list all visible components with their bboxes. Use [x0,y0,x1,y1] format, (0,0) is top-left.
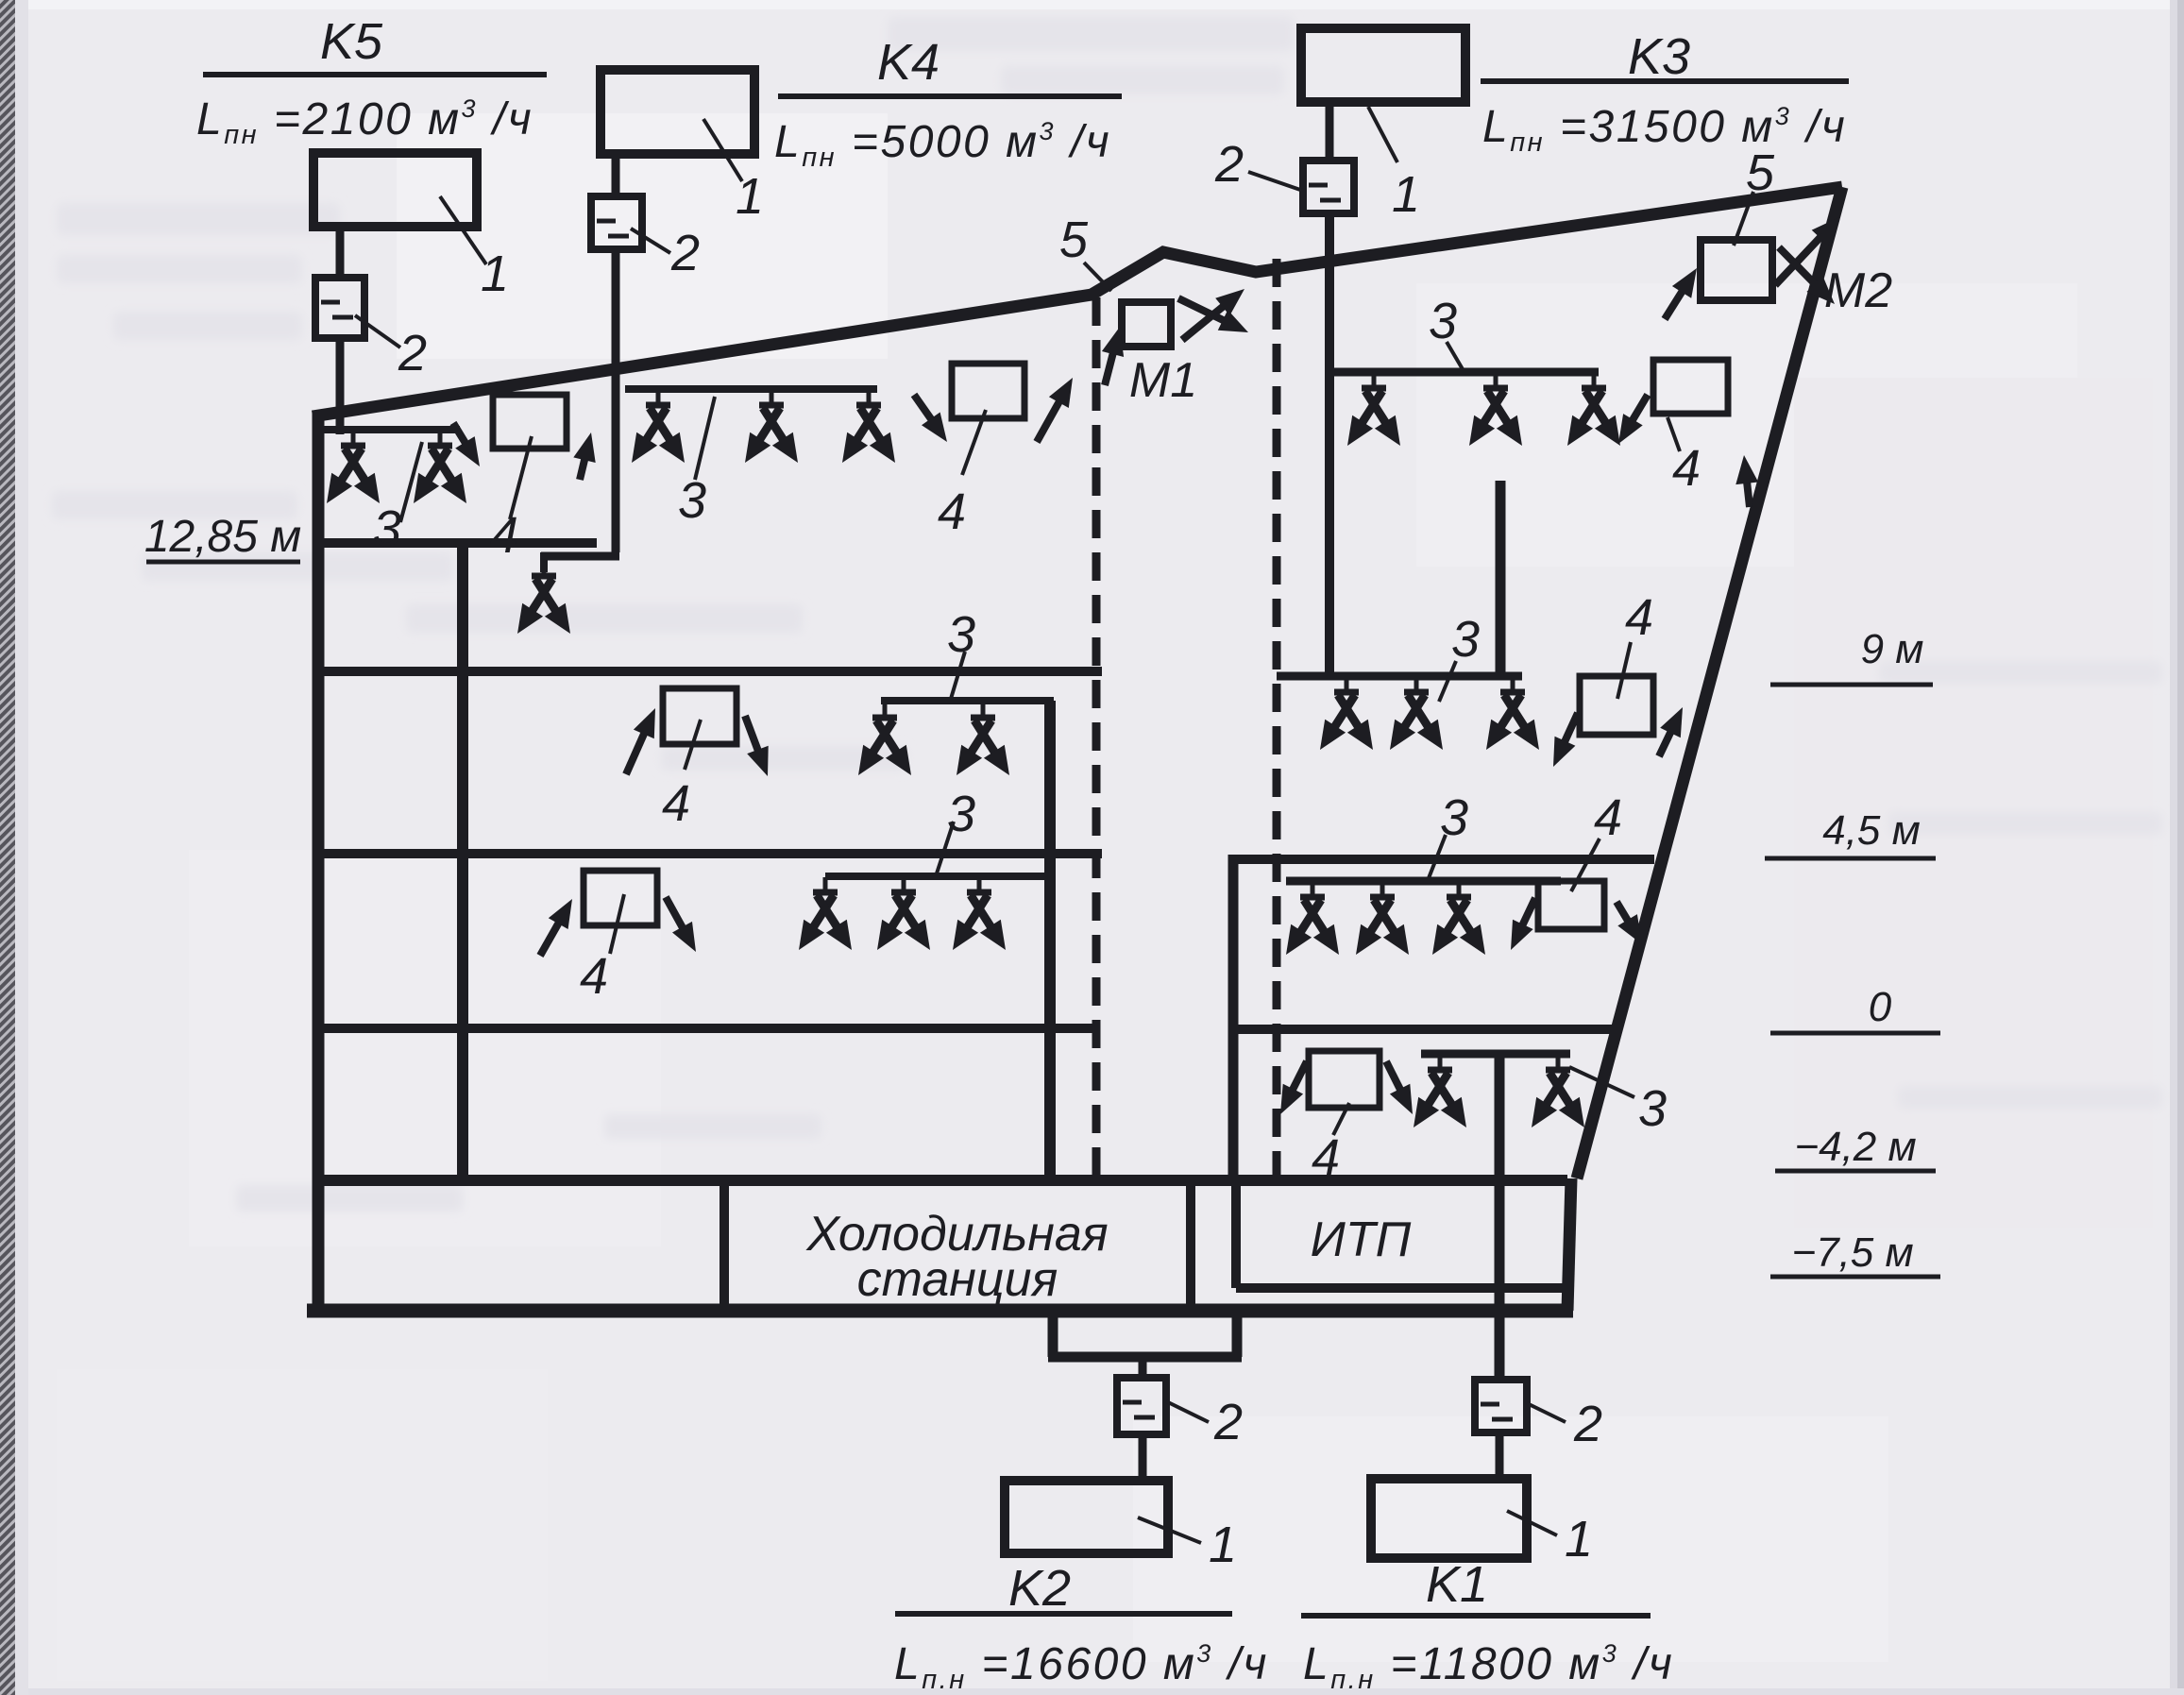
svg-text:2: 2 [670,225,700,281]
duct K5 above damper [336,227,345,278]
label 4 floor 4.5 left [580,948,608,1005]
leader to label 3 of K3 top branch [1447,342,1463,369]
leader to label 1 of K3 [1368,107,1397,162]
label 4 top middle [938,483,966,540]
elevation 4.5 m underline [1765,856,1936,861]
svg-text:K1: K1 [1426,1556,1488,1613]
page left edge hatched strip [0,0,28,1695]
diffuser 3a floor -4.2 [1414,1055,1466,1127]
building bottom line [307,1304,1573,1318]
diffuser 3a floor 4.5 left [799,877,852,950]
diffuser 3b of K3 top branch [1469,373,1522,446]
label 4 floor -4.2 [1312,1129,1340,1186]
label 3 floor 9 right [1451,611,1480,668]
diffuser at K4 drop [517,561,570,634]
arrow into unit 4 floor 9 left [626,708,655,774]
arrow out of unit 4 floor 12.85 [573,432,595,480]
duct K3 riser [1325,213,1334,676]
fan unit 4 on floor 12.85 left [493,395,567,449]
K1 branch duct floor -4.2 [1421,1050,1570,1059]
diffuser 3c floor 9 [1486,677,1539,750]
svg-text:4: 4 [580,948,608,1005]
K5 title [320,13,383,70]
label 1 of K5 [481,246,509,302]
leader to label 3 floor 9 left [951,652,965,699]
fan unit 4 floor 9 right [1580,676,1653,735]
arrow into unit 4 floor 12.85 [453,423,480,466]
K4 title [877,34,940,91]
label 2 of K2 [1213,1394,1243,1450]
arrow out of unit 4 floor 4.5 right [1511,898,1535,950]
K4 flow formula [774,117,1111,173]
svg-text:4: 4 [938,483,966,540]
arrow up into M1 [1102,327,1124,385]
elevation -4.2 underline [1775,1169,1936,1174]
label 1 of K3 [1392,166,1420,223]
svg-text:3: 3 [373,500,401,557]
elevation 12.85 underline [146,560,300,565]
diffuser 3a of K4 branch [632,390,685,463]
leader to label 5 of M1 [1084,263,1111,291]
expansion joint dashed line 1 [1092,297,1101,1180]
svg-text:3: 3 [1440,789,1468,846]
arrow out of unit 4 top right [1618,395,1648,444]
arrow out of unit 4 top middle [1037,378,1073,442]
diffuser 3a floor 4.5 right [1286,882,1339,955]
leader to label 4 floor -4.2 [1333,1103,1349,1135]
air handling unit 1 of K4 [601,70,754,154]
elevation -7.5 underline [1770,1275,1940,1280]
shaft duct in left bay [457,548,468,1180]
leader to label 4 floor 9 right [1617,642,1631,699]
leader to label 1 of K1 [1507,1511,1557,1535]
duct K4 elbow [541,552,619,561]
svg-text:3: 3 [1638,1080,1667,1137]
label 3 of K4 branch [678,472,706,529]
leader to label 3 of K4 branch [695,397,715,480]
elevation label 4.5 m [1822,807,1921,854]
page bottom edge strip [0,1688,2184,1695]
svg-text:K5: K5 [320,13,383,70]
branch duct floor 4.5 right [1286,877,1561,886]
ITP room left wall [1231,1180,1241,1288]
svg-text:3: 3 [1451,611,1480,668]
leader to label 3 floor 4.5 left [937,822,954,873]
diffuser 3b floor 9 left [957,703,1009,775]
svg-text:M2: M2 [1824,263,1892,318]
duct K4 above damper [612,154,620,196]
expansion joint dashed line 2 [1273,259,1281,1180]
label 1 of K2 [1209,1517,1237,1573]
label 4 floor 9 right [1625,589,1653,646]
svg-text:4: 4 [662,775,690,832]
riser duct to floor 9 branch [1496,481,1506,676]
air handling unit 1 of K1 [1371,1479,1527,1558]
K3 branch duct top floor [1329,368,1599,377]
building slanted right wall [1577,187,1842,1178]
floor +9 m stub between joint and K3 duct [1277,672,1335,681]
elevation label 0 [1869,984,1892,1030]
K1 flow formula [1303,1639,1674,1695]
svg-text:2: 2 [398,325,427,381]
basement ceiling line -4.2 m [313,1175,1567,1186]
leader to label 1 of K5 [440,196,486,264]
label M2 [1824,263,1892,318]
K2 underground duct bottom [1048,1352,1242,1363]
diffuser 3b floor -4.2 [1532,1055,1584,1127]
leader to label 4 floor 4.5 right [1571,839,1600,891]
svg-text:4: 4 [1625,589,1653,646]
svg-text:−4,2 м: −4,2 м [1794,1124,1916,1170]
svg-text:1: 1 [1392,166,1420,223]
label 4 floor 9 left [662,775,690,832]
fan unit 4 floor -4.2 [1309,1051,1380,1108]
label 3 floor -4.2 [1638,1080,1667,1137]
elevation 9 m underline [1770,683,1933,687]
label M1 [1129,353,1197,408]
K5 flow formula [196,94,533,150]
svg-text:4: 4 [1594,789,1622,846]
duct K4 drop [540,552,548,572]
roof vent box 5 M1 [1122,302,1171,347]
svg-text:0: 0 [1869,984,1892,1030]
label 5 of M1 [1059,212,1089,268]
arrow up into M2 [1665,268,1697,319]
elevation 0 underline [1770,1031,1940,1036]
fan unit 4 top middle [952,364,1024,418]
elevation label 12.85 [144,512,301,562]
svg-text:1: 1 [1209,1517,1237,1573]
air handling unit 1 of K3 [1301,28,1465,102]
leader to label 5 of M2 [1734,192,1753,246]
diffuser 3a of K5 branch [327,431,380,503]
label 2 of K1 [1573,1396,1602,1452]
diffuser 3c floor 4.5 right [1432,882,1485,955]
leader to label 1 of K4 [703,119,742,181]
building roof line [313,187,1842,416]
refrigeration station room left wall [720,1180,729,1311]
building left wall [313,413,325,1314]
svg-text:−7,5 м: −7,5 м [1791,1229,1913,1276]
leader to label 4 floor 4.5 left [610,894,624,954]
svg-text:K2: K2 [1008,1560,1071,1617]
svg-text:4: 4 [1312,1129,1340,1186]
svg-text:3: 3 [947,786,975,842]
label Холодильная станция [805,1207,1108,1307]
floor +9 m left section [313,667,1102,676]
leader to label 1 of K2 [1138,1517,1201,1543]
label 3 of K3 top branch [1429,293,1457,349]
arrow into unit 4 floor 4.5 left [540,899,572,956]
K1 title [1426,1556,1488,1613]
label 2 of K4 [670,225,700,281]
duct K2 to unit [1139,1434,1147,1481]
svg-text:ИТП: ИТП [1311,1212,1412,1267]
floor 0 right section [1233,1025,1615,1034]
arrow M1 exhaust upper [1182,289,1244,340]
svg-text:3: 3 [1429,293,1457,349]
fan unit 4 floor 4.5 right [1538,881,1604,929]
K5 title underline [203,72,547,77]
arrow M1 exhaust lower [1178,298,1248,332]
duct K1 to damper [1496,1376,1504,1384]
label ИТП [1311,1212,1412,1267]
page top edge light strip [15,0,2184,9]
refrigeration station room right wall [1186,1180,1195,1311]
elevation label 9 m [1861,626,1924,672]
diffuser 3a of K3 top branch [1347,373,1400,446]
label 3 floor 9 left [947,606,975,663]
duct K4 riser [612,249,620,552]
arrow out of unit 4 floor 9 left [745,716,769,776]
label 1 of K4 [736,168,764,225]
damper 2 of K1 [1475,1380,1527,1432]
leader to label 4 floor 9 left [685,720,701,770]
K3 title underline [1481,78,1849,84]
svg-text:1: 1 [736,168,764,225]
K3 branch duct floor 9 [1328,672,1522,681]
K2 riser duct [1044,701,1056,1180]
svg-text:4,5 м: 4,5 м [1822,807,1921,854]
floor +4.5 m right section [1233,855,1654,864]
svg-text:станция: станция [857,1252,1058,1307]
diffuser 3c of K3 top branch [1567,373,1620,446]
diffuser 3a floor 9 [1320,677,1373,750]
label 5 of M2 [1746,144,1775,201]
diffuser 3b floor 9 [1390,677,1443,750]
leader to label 3 floor -4.2 [1569,1067,1634,1097]
arrow into unit 4 top middle [914,395,947,442]
K4 branch duct top floor [625,385,877,393]
svg-text:K3: K3 [1628,28,1690,85]
leader to label 3 floor 9 right [1439,661,1456,702]
arrow out of unit 4 floor -4.2 right [1386,1061,1413,1114]
arrow M2 exhaust lower [1779,247,1835,304]
leader to label 2 of K4 [631,229,670,253]
damper 2 of K3 [1303,161,1354,213]
duct K1 to unit [1496,1432,1504,1479]
K2 underground duct right side [1232,1311,1243,1357]
diffuser 3b of K5 branch [414,431,466,503]
diffuser 3b floor 4.5 right [1356,882,1409,955]
K2 underground duct left side [1048,1311,1058,1357]
air handling unit 1 of K2 [1005,1481,1168,1553]
roof vent box 5 M2 [1701,240,1772,300]
leader to label 4 top middle [962,410,986,475]
leader to label 3 on floor 12.85 [400,442,422,522]
diffuser 3c floor 4.5 left [953,877,1006,950]
elevation label -4.2 m [1794,1124,1916,1170]
arrow into unit 4 floor 9 right [1659,707,1683,756]
leader to label 4 floor 12.85 left [510,436,532,519]
diffuser 3c of K4 branch [842,390,895,463]
K1 riser duct [1495,1054,1505,1380]
right block left wall [1228,855,1239,1180]
svg-text:4: 4 [490,507,518,564]
svg-text:12,85 м: 12,85 м [144,512,301,562]
duct K3 above damper [1326,102,1334,161]
svg-text:2: 2 [1213,1394,1243,1450]
duct K5 down to roof [336,338,345,434]
damper 2 of K5 [315,278,364,338]
label 3 floor 4.5 right [1440,789,1468,846]
elevation label -7.5 m [1791,1229,1913,1276]
svg-text:5: 5 [1746,144,1775,201]
K3 title [1628,28,1690,85]
label 4 on floor 12.85 left [490,507,518,564]
air handling unit 1 of K5 [313,153,477,227]
page right edge strip [2170,0,2184,1695]
diffuser 3b floor 4.5 left [877,877,930,950]
floor +4.5 m left section [313,849,1102,858]
K2 flow formula [894,1639,1269,1695]
svg-text:2: 2 [1573,1396,1602,1452]
label 2 of K3 [1214,136,1244,193]
svg-text:1: 1 [1565,1511,1593,1568]
svg-text:3: 3 [947,606,975,663]
floor +12.85 m [313,538,597,548]
damper 2 of K4 [591,196,642,249]
K3 flow formula [1482,102,1847,158]
K4 title underline [778,93,1122,99]
fan unit 4 floor 9 left [663,688,736,744]
arrow out of unit 4 floor -4.2 left [1280,1061,1307,1114]
label 2 of K5 [398,325,427,381]
arrow into unit 4 top right [1735,455,1758,507]
K2 title underline [895,1611,1232,1617]
label 4 top right [1672,440,1701,497]
leader to label 2 of K5 [355,315,400,347]
K2 stub to damper [1139,1357,1147,1380]
faint bleed-through from reverse page [52,17,2162,1212]
leader to label 4 top right [1668,417,1680,451]
leader to label 2 of K1 [1527,1403,1566,1422]
label 3 on floor 12.85 [373,500,401,557]
K1 title underline [1301,1613,1651,1619]
branch duct floor 9 left [881,697,1054,704]
building right wall lower part [1567,1178,1571,1311]
arrow out of unit 4 floor 9 right [1553,713,1578,767]
svg-text:2: 2 [1214,136,1244,193]
svg-text:K4: K4 [877,34,940,91]
label 1 of K1 [1565,1511,1593,1568]
svg-text:3: 3 [678,472,706,529]
leader to label 2 of K2 [1166,1401,1209,1422]
arrow from unit 4 floor 4.5 right [1617,902,1642,944]
K2 title [1008,1560,1071,1617]
branch duct floor 4.5 left [825,873,1054,880]
leader to label 2 of K3 [1248,172,1303,191]
fan unit 4 top right [1653,360,1728,414]
svg-text:5: 5 [1059,212,1089,268]
fan unit 4 floor 4.5 left [584,871,657,925]
damper 2 of K2 [1117,1378,1166,1434]
svg-text:M1: M1 [1129,353,1197,408]
ITP room bottom [1236,1283,1567,1293]
svg-text:4: 4 [1672,440,1701,497]
diffuser 3a floor 9 left [858,703,911,775]
arrow M2 exhaust upper [1775,217,1839,285]
svg-text:1: 1 [481,246,509,302]
arrow out of unit 4 floor 4.5 left [666,897,696,952]
floor 0 left section [313,1024,1099,1033]
label 4 floor 4.5 right [1594,789,1622,846]
svg-text:9 м: 9 м [1861,626,1924,672]
leader to label 3 floor 4.5 right [1429,835,1446,878]
label 3 floor 4.5 left [947,786,975,842]
diffuser 3b of K4 branch [745,390,798,463]
K5 branch duct on floor 12.85 [324,426,460,433]
